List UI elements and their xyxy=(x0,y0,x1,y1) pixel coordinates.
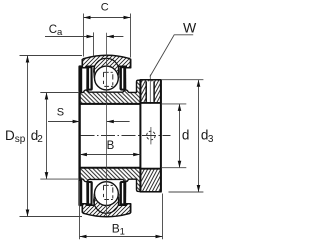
svg-text:d: d xyxy=(182,128,190,143)
svg-text:sp: sp xyxy=(15,134,26,145)
svg-text:C: C xyxy=(49,24,57,36)
svg-text:W: W xyxy=(183,20,197,36)
svg-text:B: B xyxy=(107,140,115,152)
svg-text:a: a xyxy=(57,27,63,38)
svg-text:3: 3 xyxy=(208,134,214,145)
svg-text:S: S xyxy=(57,107,64,119)
svg-text:D: D xyxy=(5,128,15,143)
svg-text:C: C xyxy=(101,2,109,14)
svg-text:2: 2 xyxy=(37,134,43,145)
svg-text:1: 1 xyxy=(120,227,125,238)
